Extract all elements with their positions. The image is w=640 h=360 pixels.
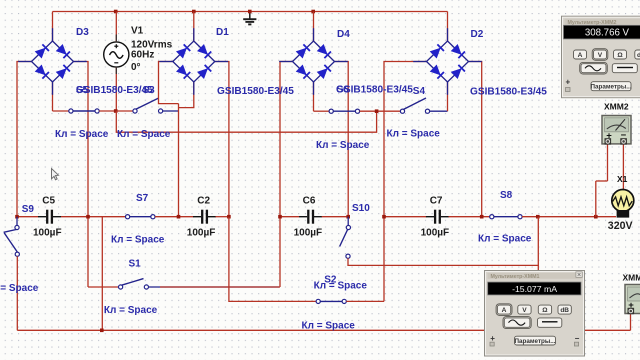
svg-text:Ω: Ω xyxy=(542,307,548,314)
svg-text:V1: V1 xyxy=(131,26,144,37)
svg-text:X1: X1 xyxy=(617,174,628,184)
svg-text:Кл = Space: Кл = Space xyxy=(316,140,370,151)
svg-text:D2: D2 xyxy=(471,29,484,40)
svg-text:V: V xyxy=(598,52,603,59)
svg-text:GSIB1580-E3/45: GSIB1580-E3/45 xyxy=(470,87,547,98)
svg-text:S8: S8 xyxy=(500,190,513,201)
svg-text:Кл = Space: Кл = Space xyxy=(302,321,356,332)
svg-text:S4: S4 xyxy=(413,86,426,97)
svg-text:dB: dB xyxy=(560,307,569,314)
svg-text:Параметры...: Параметры... xyxy=(514,338,555,345)
svg-text:+: + xyxy=(566,78,571,87)
svg-text:S1: S1 xyxy=(129,259,142,270)
svg-text:S7: S7 xyxy=(136,193,149,204)
svg-text:Кл = Space: Кл = Space xyxy=(104,305,158,316)
svg-text:Кл = Space: Кл = Space xyxy=(478,234,532,245)
svg-text:XMM1: XMM1 xyxy=(623,273,640,283)
svg-text:Кл = Space: Кл = Space xyxy=(117,129,171,140)
svg-text:Параметры...: Параметры... xyxy=(590,83,631,90)
svg-text:C7: C7 xyxy=(430,196,443,207)
svg-text:D4: D4 xyxy=(337,29,350,40)
svg-text:100µF: 100µF xyxy=(421,228,450,239)
svg-text:Кл = Space: Кл = Space xyxy=(314,281,368,292)
svg-text:C2: C2 xyxy=(197,196,210,207)
svg-text:Кл = Space: Кл = Space xyxy=(111,235,165,246)
svg-text:C5: C5 xyxy=(42,196,55,207)
svg-text:A: A xyxy=(578,52,583,59)
svg-text:S10: S10 xyxy=(352,203,370,214)
svg-text:S5: S5 xyxy=(76,85,89,96)
svg-text:S9: S9 xyxy=(22,204,35,215)
svg-text:−: − xyxy=(575,334,580,343)
svg-text:Ω: Ω xyxy=(617,52,623,59)
svg-text:Кл = Space: Кл = Space xyxy=(55,129,109,140)
svg-text:320V: 320V xyxy=(608,220,633,232)
svg-text:S6: S6 xyxy=(337,85,350,96)
svg-text:100µF: 100µF xyxy=(294,228,323,239)
svg-text:308.766 V: 308.766 V xyxy=(585,27,630,38)
svg-text:Кл = Space: Кл = Space xyxy=(0,283,39,294)
svg-text:C6: C6 xyxy=(303,196,316,207)
svg-text:S3: S3 xyxy=(143,85,156,96)
svg-text:D1: D1 xyxy=(216,27,229,38)
svg-text:D3: D3 xyxy=(76,27,89,38)
svg-text:XMM2: XMM2 xyxy=(604,102,629,112)
svg-text:+: + xyxy=(490,334,495,343)
svg-text:A: A xyxy=(502,307,507,314)
svg-text:100µF: 100µF xyxy=(187,228,216,239)
svg-text:100µF: 100µF xyxy=(33,228,62,239)
svg-text:S2: S2 xyxy=(324,275,337,286)
svg-text:Кл = Space: Кл = Space xyxy=(387,129,441,140)
svg-text:GSIB1580-E3/45: GSIB1580-E3/45 xyxy=(217,86,294,97)
svg-text:Мультиметр-XMM1: Мультиметр-XMM1 xyxy=(491,274,540,280)
svg-text:0°: 0° xyxy=(131,62,141,73)
svg-text:-15.077 mA: -15.077 mA xyxy=(512,284,557,294)
svg-text:60Hz: 60Hz xyxy=(131,50,154,61)
svg-text:✕: ✕ xyxy=(577,273,582,279)
svg-text:V: V xyxy=(522,307,527,314)
